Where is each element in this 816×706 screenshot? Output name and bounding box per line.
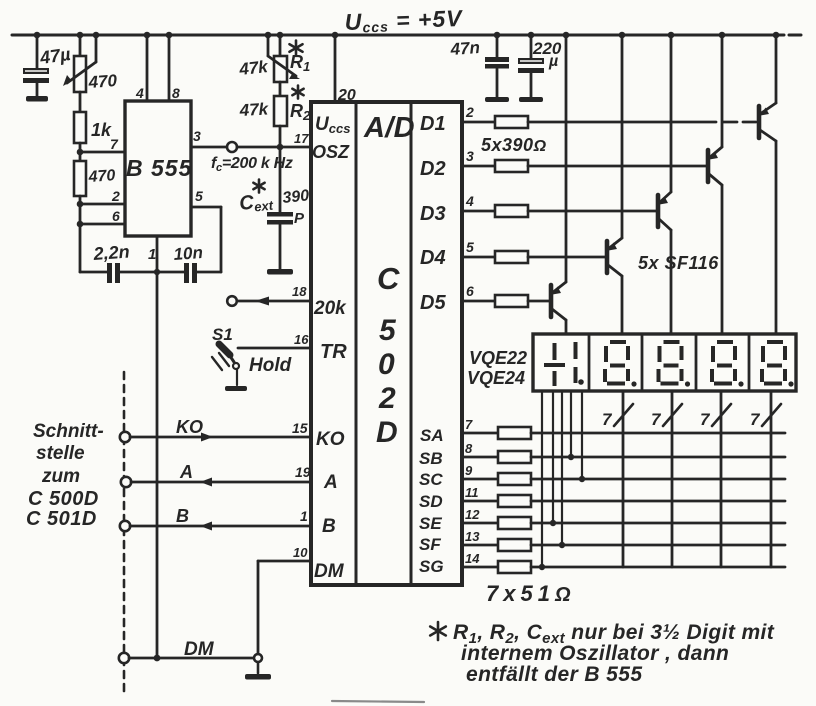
capacitor 47u bbox=[36, 35, 39, 68]
svg-text:D: D bbox=[376, 416, 398, 449]
wire pin18 20k input bbox=[227, 296, 237, 306]
wire segment line pin9 bbox=[531, 478, 785, 481]
svg-text:47k: 47k bbox=[238, 99, 270, 120]
wire segment line pin8 bbox=[531, 456, 785, 459]
svg-text:B 555: B 555 bbox=[126, 155, 193, 181]
half digit plus-minus 1 bbox=[544, 363, 565, 367]
svg-text:20: 20 bbox=[337, 87, 356, 104]
IC U1 A/D C502D bbox=[311, 102, 462, 585]
ground for 47n bbox=[485, 97, 509, 102]
svg-text:1: 1 bbox=[300, 508, 308, 524]
scan artifact mark bottom bbox=[332, 701, 424, 702]
wire +5V to Q1 emitter bbox=[775, 35, 778, 103]
wire half-digit segment x=562 bbox=[561, 391, 563, 545]
bus slash 7 at x=623 bbox=[614, 404, 633, 426]
segment bus wire at x=623 bbox=[622, 391, 625, 567]
svg-text:5: 5 bbox=[195, 188, 203, 204]
wire D4 base bbox=[528, 256, 605, 259]
svg-text:DM: DM bbox=[314, 561, 345, 582]
svg-text:D3: D3 bbox=[420, 203, 446, 225]
svg-text:D2: D2 bbox=[420, 158, 446, 180]
display module VQE22 VQE24 bbox=[533, 334, 796, 391]
svg-text:SE: SE bbox=[419, 514, 442, 533]
svg-text:DM: DM bbox=[184, 639, 215, 660]
svg-text:stelle: stelle bbox=[36, 443, 85, 464]
wire pin8 of B555 bbox=[168, 35, 171, 101]
resistor 390 ohm for D4 bbox=[495, 251, 528, 263]
svg-text:47k: 47k bbox=[237, 57, 270, 79]
wire pin1 of B555 down bbox=[156, 236, 159, 658]
wire KO pin15 bbox=[120, 432, 130, 442]
footnote star bbox=[430, 622, 446, 640]
svg-text:internem Oszillator , dann: internem Oszillator , dann bbox=[461, 642, 729, 665]
wire +5V to Q5 emitter bbox=[565, 35, 568, 282]
resistor 390 ohm for D5 bbox=[495, 295, 528, 307]
wire pin5 of B555 bbox=[191, 206, 221, 209]
svg-text:470: 470 bbox=[87, 167, 116, 186]
svg-text:B: B bbox=[176, 506, 189, 526]
resistor 51 ohm pin13 bbox=[498, 539, 531, 551]
bus slash 7 at x=721 bbox=[712, 404, 731, 426]
svg-text:P: P bbox=[294, 210, 305, 227]
wire segment line pin13 bbox=[531, 544, 785, 547]
svg-text:0: 0 bbox=[378, 348, 395, 381]
resistor R2 47k bbox=[274, 96, 287, 126]
svg-text:5: 5 bbox=[466, 239, 474, 255]
svg-text:14: 14 bbox=[465, 551, 480, 566]
svg-text:10: 10 bbox=[293, 545, 308, 560]
wire D2 pin3 bbox=[462, 165, 495, 168]
resistor 51 ohm pin9 bbox=[498, 473, 531, 485]
svg-text:9: 9 bbox=[465, 463, 473, 478]
svg-text:5x390Ω: 5x390Ω bbox=[481, 135, 547, 155]
svg-text:C 501D: C 501D bbox=[26, 508, 97, 530]
svg-text:5: 5 bbox=[379, 314, 397, 347]
wire circle to OSZ pin17 bbox=[237, 146, 311, 149]
wire Q1 collector to display bbox=[775, 141, 778, 334]
node pin7 junction bbox=[80, 151, 125, 154]
capacitor 10n bbox=[184, 263, 189, 283]
wire S row pin12 bbox=[462, 522, 498, 525]
svg-text:D5: D5 bbox=[420, 292, 446, 314]
interface bus dashed line bbox=[123, 372, 126, 696]
wire segment line pin14 bbox=[531, 566, 785, 569]
transistor Q5 SF116 bbox=[549, 285, 554, 317]
capacitor 220u bbox=[530, 35, 533, 58]
svg-text:SF: SF bbox=[419, 535, 441, 554]
svg-text:18: 18 bbox=[292, 284, 307, 299]
capacitor Cext 390p bbox=[279, 147, 282, 213]
wire pin4 of B555 bbox=[146, 35, 149, 101]
svg-text:470: 470 bbox=[87, 71, 118, 92]
svg-text:7: 7 bbox=[700, 410, 711, 429]
svg-text:19: 19 bbox=[295, 464, 311, 480]
wire half-digit segment x=571 bbox=[570, 391, 572, 457]
wire S row pin11 bbox=[462, 500, 498, 503]
ground for 220u bbox=[519, 97, 543, 102]
wiper of R1 bbox=[267, 35, 270, 56]
svg-text:µ: µ bbox=[548, 53, 558, 70]
svg-text:7: 7 bbox=[750, 410, 761, 429]
transistor Q2 SF116 bbox=[706, 150, 711, 182]
resistor 51 ohm pin14 bbox=[498, 561, 531, 573]
svg-text:C: C bbox=[377, 261, 400, 296]
wire Q3 collector to display bbox=[670, 230, 673, 334]
wire Q5 collector to display bbox=[565, 320, 568, 334]
wire Q2 collector to display bbox=[721, 185, 724, 334]
wire D4 pin5 bbox=[462, 256, 495, 259]
potentiometer 470 bbox=[79, 35, 82, 56]
svg-text:47n: 47n bbox=[449, 38, 481, 59]
resistor 470 bbox=[74, 161, 86, 196]
svg-text:8: 8 bbox=[465, 441, 473, 456]
svg-text:SA: SA bbox=[420, 426, 444, 445]
svg-text:5x SF116: 5x SF116 bbox=[638, 253, 719, 273]
star for R1 bbox=[290, 41, 303, 56]
wire pin6 of B555 bbox=[80, 223, 125, 226]
digit 8 at x=670.5 bbox=[659, 342, 691, 387]
svg-text:Hold: Hold bbox=[249, 355, 292, 376]
svg-text:D1: D1 bbox=[420, 113, 446, 135]
svg-text:A/D: A/D bbox=[363, 112, 415, 144]
segment bus wire at x=721 bbox=[720, 391, 723, 567]
svg-text:12: 12 bbox=[465, 507, 480, 522]
resistor 51 ohm pin12 bbox=[498, 517, 531, 529]
wire S row pin13 bbox=[462, 544, 498, 547]
wire B pin1 bbox=[120, 521, 130, 531]
svg-text:A: A bbox=[323, 472, 338, 493]
transistor Q4 SF116 bbox=[605, 241, 610, 273]
svg-text:SC: SC bbox=[419, 470, 443, 489]
wire S row pin9 bbox=[462, 478, 498, 481]
svg-text:2,2n: 2,2n bbox=[92, 242, 130, 265]
svg-text:S1: S1 bbox=[212, 325, 233, 344]
digit 8 at x=774 bbox=[762, 342, 794, 387]
svg-text:entfällt der B 555: entfällt der B 555 bbox=[466, 663, 642, 686]
svg-text:2: 2 bbox=[465, 104, 474, 120]
bus slash 7 at x=771 bbox=[762, 404, 781, 426]
svg-text:16: 16 bbox=[294, 332, 309, 347]
resistor 1k bbox=[74, 112, 86, 143]
wire half-digit segment x=542 bbox=[541, 391, 543, 567]
pin20 Ucc wire bbox=[334, 35, 337, 102]
wire DM pin10 bbox=[119, 653, 129, 663]
wire pin2 of B555 bbox=[80, 203, 125, 206]
power rail +5V net Uccs bbox=[12, 34, 784, 37]
svg-text:10n: 10n bbox=[173, 243, 204, 264]
resistor 390 ohm for D1 bbox=[495, 116, 528, 128]
wiper of potentiometer 470 bbox=[95, 35, 98, 62]
wire segment line pin12 bbox=[531, 522, 785, 525]
wire half-digit segment x=582 bbox=[581, 391, 583, 479]
svg-text:6: 6 bbox=[112, 208, 120, 224]
svg-text:8: 8 bbox=[172, 85, 180, 101]
svg-text:7: 7 bbox=[602, 410, 613, 429]
svg-text:SG: SG bbox=[419, 557, 444, 576]
svg-text:7x51Ω: 7x51Ω bbox=[486, 581, 576, 606]
wire D5 pin6 bbox=[462, 300, 495, 303]
svg-text:1: 1 bbox=[148, 246, 156, 263]
wire +5V to Q4 emitter bbox=[621, 35, 624, 238]
ground for 47u bbox=[26, 96, 48, 102]
star for Cext bbox=[253, 180, 264, 193]
svg-text:TR: TR bbox=[320, 341, 347, 363]
star for R2 bbox=[292, 86, 303, 99]
wire S row pin7 bbox=[462, 432, 498, 435]
wire segment line pin11 bbox=[531, 500, 785, 503]
wire Q4 collector to display bbox=[621, 276, 624, 334]
wire left column down bbox=[79, 196, 82, 272]
wire pin16 TR bbox=[238, 347, 311, 350]
ground for S1 bbox=[225, 386, 247, 391]
svg-text:KO: KO bbox=[176, 417, 203, 437]
resistor 390 ohm for D3 bbox=[495, 205, 528, 217]
svg-text:KO: KO bbox=[316, 429, 345, 450]
svg-text:6: 6 bbox=[466, 283, 474, 299]
wire D5 base bbox=[528, 300, 549, 303]
svg-text:zum: zum bbox=[41, 466, 80, 487]
ground for DM bbox=[257, 662, 260, 673]
wire D3 pin4 bbox=[462, 210, 495, 213]
trimmer R1 47k bbox=[279, 35, 282, 56]
segment bus wire at x=672 bbox=[671, 391, 674, 567]
svg-text:SB: SB bbox=[419, 449, 443, 468]
transistor Q3 SF116 bbox=[656, 195, 661, 227]
svg-text:20k: 20k bbox=[313, 298, 347, 319]
svg-text:13: 13 bbox=[465, 529, 480, 544]
svg-text:1k: 1k bbox=[91, 120, 112, 140]
wire D1 base bbox=[528, 121, 716, 124]
capacitor 2.2n bbox=[107, 263, 112, 283]
svg-text:390: 390 bbox=[282, 187, 310, 207]
svg-text:7: 7 bbox=[110, 136, 119, 152]
resistor 51 ohm pin7 bbox=[498, 427, 531, 439]
wire A pin19 bbox=[121, 477, 131, 487]
svg-text:3: 3 bbox=[193, 128, 201, 144]
svg-text:4: 4 bbox=[465, 193, 474, 209]
svg-text:7: 7 bbox=[651, 410, 662, 429]
svg-text:VQE24: VQE24 bbox=[467, 368, 525, 388]
svg-text:3: 3 bbox=[466, 148, 474, 164]
svg-text:B: B bbox=[322, 516, 336, 537]
wire D3 base bbox=[528, 210, 656, 213]
segment bus wire at x=771 bbox=[770, 391, 773, 567]
digit 8 at x=724 bbox=[712, 342, 744, 387]
transistor Q1 SF116 bbox=[757, 106, 762, 138]
capacitor 47n bbox=[496, 35, 499, 57]
wire D1 pin2 bbox=[462, 121, 495, 124]
svg-text:D4: D4 bbox=[420, 247, 446, 269]
resistor 51 ohm pin8 bbox=[498, 451, 531, 463]
wire D2 base bbox=[528, 165, 706, 168]
svg-text:C 500D: C 500D bbox=[28, 488, 99, 510]
svg-text:SD: SD bbox=[419, 492, 443, 511]
wire pin3 of B555 bbox=[191, 146, 227, 149]
resistor 51 ohm pin11 bbox=[498, 495, 531, 507]
svg-text:2: 2 bbox=[378, 382, 396, 415]
node open circle fc bbox=[227, 142, 237, 152]
svg-text:VQE22: VQE22 bbox=[469, 348, 527, 368]
wire segment line pin7 bbox=[531, 432, 785, 435]
IC B555 bbox=[125, 101, 191, 236]
wire +5V to Q2 emitter bbox=[721, 35, 724, 147]
svg-text:17: 17 bbox=[294, 131, 309, 146]
wire 1k to 470 bbox=[79, 143, 82, 161]
svg-text:4: 4 bbox=[135, 85, 144, 101]
digit 8 at x=617 bbox=[605, 342, 637, 387]
wire bottom net of B555 bbox=[80, 271, 107, 274]
svg-text:OSZ: OSZ bbox=[312, 142, 350, 162]
svg-text:15: 15 bbox=[292, 420, 308, 436]
svg-text:Schnitt-: Schnitt- bbox=[33, 421, 104, 442]
svg-text:11: 11 bbox=[465, 485, 479, 500]
wire S row pin14 bbox=[462, 566, 498, 569]
svg-text:A: A bbox=[179, 462, 193, 482]
resistor 390 ohm for D2 bbox=[495, 160, 528, 172]
svg-text:7: 7 bbox=[465, 417, 473, 432]
wire S row pin8 bbox=[462, 456, 498, 459]
ground for Cext bbox=[267, 269, 293, 275]
wire +5V to Q3 emitter bbox=[670, 35, 673, 192]
wire half-digit segment x=553 bbox=[552, 391, 554, 523]
svg-text:2: 2 bbox=[111, 188, 120, 204]
bus slash 7 at x=672 bbox=[663, 404, 682, 426]
